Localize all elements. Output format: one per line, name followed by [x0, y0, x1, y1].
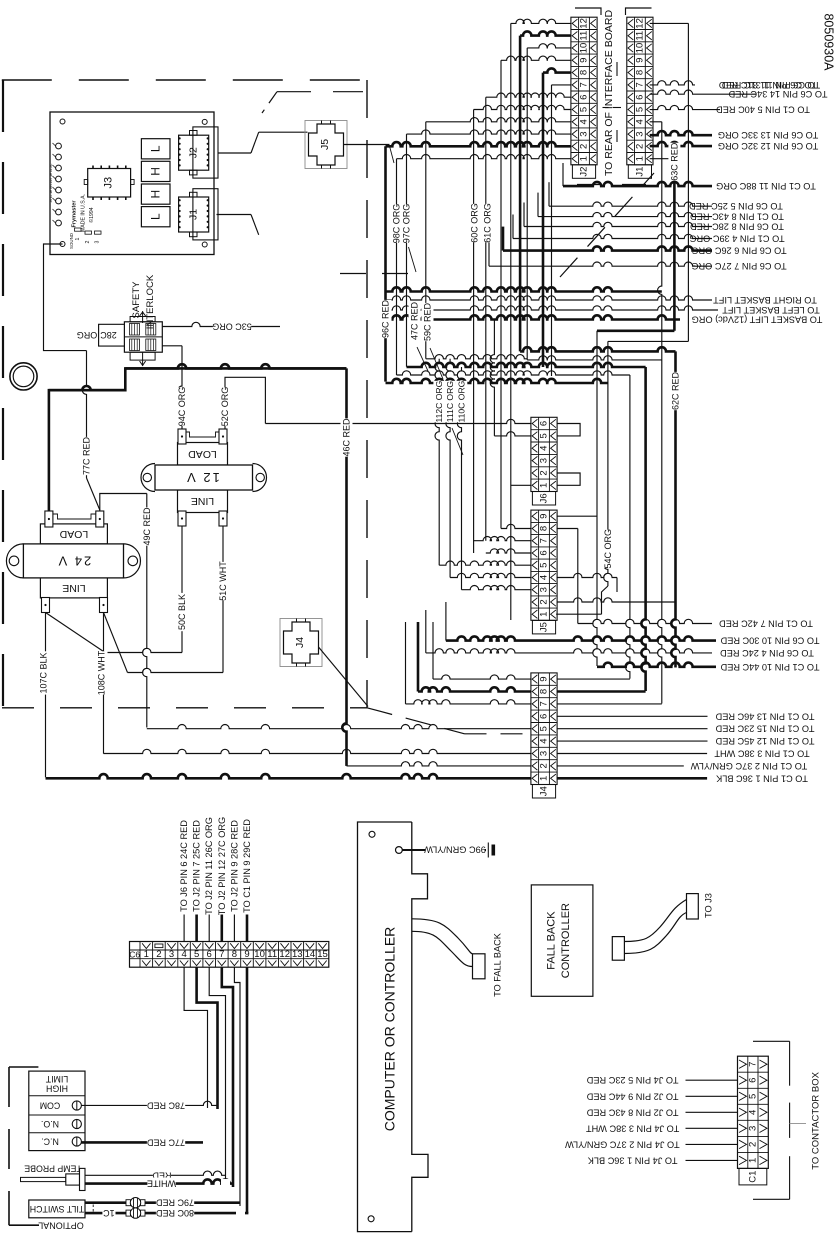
svg-text:TO C1 PIN 4 39C ORG: TO C1 PIN 4 39C ORG	[689, 234, 784, 244]
svg-text:3: 3	[539, 587, 550, 592]
svg-text:47C RED: 47C RED	[410, 301, 420, 340]
svg-text:1: 1	[634, 156, 645, 161]
svg-text:4: 4	[539, 738, 550, 743]
svg-text:5: 5	[539, 726, 550, 731]
svg-text:6: 6	[539, 714, 550, 719]
svg-text:TO C1 PIN 12 45C RED: TO C1 PIN 12 45C RED	[715, 736, 814, 746]
svg-text:7: 7	[747, 1062, 758, 1067]
svg-text:2: 2	[156, 949, 161, 960]
svg-text:1C: 1C	[103, 1208, 115, 1218]
svg-text:7: 7	[579, 82, 590, 87]
svg-text:TO BASKET LIFT (12Vdc) ORG: TO BASKET LIFT (12Vdc) ORG	[692, 315, 823, 325]
svg-text:2: 2	[634, 144, 645, 149]
svg-text:78C RED: 78C RED	[146, 1100, 185, 1110]
svg-text:J1: J1	[188, 209, 200, 220]
svg-text:5: 5	[634, 107, 645, 112]
svg-text:TO C1 PIN 11 88C ORG: TO C1 PIN 11 88C ORG	[716, 181, 816, 191]
svg-text:J1: J1	[634, 167, 645, 177]
svg-text:53C ORG: 53C ORG	[212, 322, 252, 332]
svg-text:SAFETY: SAFETY	[131, 281, 142, 319]
svg-text:110C ORG: 110C ORG	[457, 380, 467, 422]
svg-text:11: 11	[634, 31, 645, 41]
svg-text:WHITE: WHITE	[147, 1179, 176, 1189]
svg-text:4: 4	[579, 119, 590, 124]
svg-text:96C RED: 96C RED	[381, 299, 391, 338]
svg-text:5: 5	[747, 1094, 758, 1099]
svg-text:6: 6	[539, 550, 550, 555]
svg-text:TO C6 PIN 4 24C RED: TO C6 PIN 4 24C RED	[720, 648, 814, 658]
svg-text:107C BLK: 107C BLK	[39, 652, 49, 693]
svg-text:15: 15	[317, 949, 328, 960]
svg-text:7: 7	[539, 701, 550, 706]
svg-text:49C RED: 49C RED	[142, 507, 152, 546]
svg-text:TO C6 PIN 5 25C RED: TO C6 PIN 5 25C RED	[689, 201, 783, 211]
svg-text:J2: J2	[579, 167, 590, 177]
svg-text:54C ORG: 54C ORG	[603, 529, 613, 569]
svg-text:6: 6	[579, 95, 590, 100]
svg-text:H: H	[149, 167, 163, 176]
svg-text:3: 3	[169, 949, 174, 960]
svg-text:TO C1 PIN 15 23C RED: TO C1 PIN 15 23C RED	[715, 724, 814, 734]
svg-text:9: 9	[634, 58, 645, 63]
svg-text:11: 11	[267, 949, 277, 960]
svg-text:1: 1	[539, 776, 550, 781]
svg-text:TO C6 PIN 8 28C RED: TO C6 PIN 8 28C RED	[690, 222, 784, 232]
svg-text:8: 8	[539, 526, 550, 531]
svg-text:77C RED: 77C RED	[82, 436, 92, 475]
svg-text:61C ORG: 61C ORG	[482, 203, 492, 243]
svg-text:TO RIGHT BASKET LIFT: TO RIGHT BASKET LIFT	[713, 295, 817, 305]
svg-text:COMPUTER OR CONTROLLER: COMPUTER OR CONTROLLER	[382, 927, 398, 1132]
svg-text:©1994: ©1994	[88, 207, 95, 222]
svg-text:L: L	[149, 145, 163, 152]
svg-text:H: H	[149, 190, 163, 199]
svg-text:TO J2 PIN 9 44C RED: TO J2 PIN 9 44C RED	[586, 1091, 678, 1101]
svg-text:13: 13	[292, 949, 303, 960]
svg-text:LOAD: LOAD	[188, 448, 217, 460]
svg-text:5: 5	[579, 107, 590, 112]
svg-text:TO C1 PIN 5 40C RED: TO C1 PIN 5 40C RED	[716, 105, 810, 115]
svg-text:4: 4	[539, 446, 550, 451]
svg-text:SOUND: SOUND	[69, 233, 74, 249]
svg-text:TO C6 PIN 10 30C RED: TO C6 PIN 10 30C RED	[720, 636, 819, 646]
svg-text:6: 6	[634, 95, 645, 100]
svg-text:62C RED: 62C RED	[671, 371, 681, 410]
svg-text:10: 10	[579, 43, 590, 54]
svg-text:TO J4 PIN 1 36C BLK: TO J4 PIN 1 36C BLK	[587, 1155, 678, 1165]
svg-text:LIMIT: LIMIT	[45, 1074, 68, 1084]
svg-text:98C ORG: 98C ORG	[392, 204, 402, 244]
svg-text:4: 4	[539, 575, 550, 580]
svg-text:FALL BACK: FALL BACK	[546, 911, 558, 970]
svg-text:4: 4	[181, 949, 186, 960]
svg-text:TO C6 PIN 11 31C RED: TO C6 PIN 11 31C RED	[722, 80, 821, 90]
svg-text:63C RED: 63C RED	[669, 142, 679, 181]
svg-text:8: 8	[634, 70, 645, 75]
svg-text:C1: C1	[747, 1171, 758, 1183]
svg-text:TO J6 PIN 6 24C RED: TO J6 PIN 6 24C RED	[179, 820, 189, 912]
svg-text:TO J2 PIN 12 27C ORG: TO J2 PIN 12 27C ORG	[217, 817, 227, 915]
svg-text:TO C6 PIN 14 34C RED: TO C6 PIN 14 34C RED	[728, 89, 827, 99]
svg-text:TO J4 PIN 3 38C WHT: TO J4 PIN 3 38C WHT	[586, 1123, 680, 1133]
svg-text:7: 7	[219, 949, 224, 960]
svg-text:J4: J4	[539, 786, 550, 796]
svg-text:TO C1 PIN 3 38C WHT: TO C1 PIN 3 38C WHT	[714, 749, 810, 759]
svg-text:TO C1 PIN 2 37C GRN/YLW: TO C1 PIN 2 37C GRN/YLW	[690, 761, 807, 771]
svg-text:HIGH: HIGH	[46, 1084, 68, 1094]
svg-text:J5: J5	[319, 139, 331, 150]
svg-text:TO C6 PIN 13 33C ORG: TO C6 PIN 13 33C ORG	[718, 130, 818, 140]
svg-text:52C ORG: 52C ORG	[220, 387, 230, 427]
svg-text:J6 1L 1E GN 24V 1E 1L 2C: J6 1L 1E GN 24V 1E 1L 2C	[49, 163, 53, 202]
svg-text:11: 11	[579, 31, 590, 41]
svg-text:5: 5	[194, 949, 199, 960]
svg-text:TO J2 PIN 11 26C ORG: TO J2 PIN 11 26C ORG	[204, 817, 214, 915]
svg-text:2: 2	[579, 144, 590, 149]
svg-text:TO J2 PIN 9 28C RED: TO J2 PIN 9 28C RED	[229, 820, 239, 912]
svg-text:TEMP PROBE: TEMP PROBE	[24, 1163, 82, 1173]
svg-text:6: 6	[747, 1078, 758, 1083]
svg-text:1: 1	[539, 612, 550, 617]
svg-text:3: 3	[539, 751, 550, 756]
svg-text:TO J3: TO J3	[703, 893, 713, 918]
svg-text:L: L	[149, 213, 163, 220]
svg-text:2: 2	[539, 470, 550, 475]
svg-text:TO J2 PIN 8 43C RED: TO J2 PIN 8 43C RED	[586, 1107, 678, 1117]
svg-text:TO C6 PIN 7 27C ORG: TO C6 PIN 7 27C ORG	[691, 261, 786, 271]
svg-text:80C RED: 80C RED	[155, 1208, 194, 1218]
svg-text:2: 2	[747, 1142, 758, 1147]
svg-text:4: 4	[634, 119, 645, 124]
svg-text:TO J4 PIN 2 37C GRN/YLW: TO J4 PIN 2 37C GRN/YLW	[565, 1139, 680, 1149]
svg-text:J4: J4	[294, 637, 306, 648]
svg-text:3: 3	[579, 131, 590, 136]
svg-text:7: 7	[539, 538, 550, 543]
svg-text:3: 3	[539, 458, 550, 463]
svg-text:59C RED: 59C RED	[423, 302, 433, 341]
svg-text:TO FALL BACK: TO FALL BACK	[493, 932, 503, 997]
svg-text:1: 1	[144, 949, 149, 960]
svg-text:LOAD: LOAD	[59, 528, 88, 540]
svg-text:8050930A: 8050930A	[822, 13, 836, 71]
svg-text:COM: COM	[40, 1101, 61, 1111]
svg-text:TO CONTACTOR BOX: TO CONTACTOR BOX	[810, 1071, 821, 1169]
svg-text:99C GRN/YLW: 99C GRN/YLW	[424, 845, 486, 855]
svg-text:111C ORG: 111C ORG	[445, 381, 455, 423]
svg-text:2: 2	[539, 763, 550, 768]
svg-text:3: 3	[95, 240, 101, 243]
svg-text:12: 12	[634, 18, 645, 29]
svg-text:10: 10	[634, 43, 645, 54]
svg-text:9: 9	[539, 676, 550, 681]
svg-text:12 V: 12 V	[185, 470, 220, 485]
svg-text:1: 1	[539, 483, 550, 488]
svg-text:TO C1 PIN 13 46C RED: TO C1 PIN 13 46C RED	[715, 711, 814, 721]
svg-text:TO C6 PIN 6 26C ORG: TO C6 PIN 6 26C ORG	[691, 246, 786, 256]
svg-text:TO C1 PIN 9 29C RED: TO C1 PIN 9 29C RED	[242, 819, 252, 913]
svg-text:1: 1	[579, 156, 590, 161]
svg-text:TO LEFT BASKET LIFT: TO LEFT BASKET LIFT	[722, 305, 820, 315]
svg-text:51C WHT: 51C WHT	[218, 561, 228, 601]
svg-text:1: 1	[747, 1158, 758, 1163]
svg-text:8: 8	[579, 70, 590, 75]
svg-text:46C RED: 46C RED	[342, 418, 352, 457]
svg-text:TO J2 PIN 7 25C RED: TO J2 PIN 7 25C RED	[192, 820, 202, 912]
svg-text:TO C1 PIN 10 44C RED: TO C1 PIN 10 44C RED	[720, 662, 819, 672]
svg-text:1: 1	[75, 237, 81, 240]
svg-text:8: 8	[539, 689, 550, 694]
svg-text:108C WHT: 108C WHT	[97, 650, 107, 695]
svg-text:3: 3	[634, 131, 645, 136]
svg-text:9: 9	[539, 514, 550, 519]
svg-text:J2: J2	[188, 147, 200, 158]
svg-text:97C ORG: 97C ORG	[402, 204, 412, 244]
svg-text:2: 2	[539, 599, 550, 604]
svg-text:TO C1 PIN 7 42C RED: TO C1 PIN 7 42C RED	[719, 619, 813, 629]
svg-text:TO J4 PIN 5 23C RED: TO J4 PIN 5 23C RED	[586, 1075, 678, 1085]
svg-text:7: 7	[634, 82, 645, 87]
svg-text:8: 8	[232, 949, 237, 960]
svg-text:N.O.: N.O.	[41, 1119, 59, 1129]
svg-text:MADE IN U.S.A.: MADE IN U.S.A.	[81, 194, 87, 232]
svg-text:N.C.: N.C.	[41, 1137, 59, 1147]
svg-text:6: 6	[207, 949, 212, 960]
svg-text:4: 4	[747, 1110, 758, 1115]
svg-text:9: 9	[579, 58, 590, 63]
svg-text:14: 14	[305, 949, 316, 960]
svg-text:112C ORG: 112C ORG	[434, 380, 444, 422]
svg-text:TO C1 PIN 8 43C RED: TO C1 PIN 8 43C RED	[690, 212, 784, 222]
svg-text:9: 9	[244, 949, 249, 960]
svg-text:2: 2	[85, 240, 91, 243]
svg-text:INTERLOCK: INTERLOCK	[145, 274, 156, 329]
svg-text:LINE: LINE	[62, 582, 85, 594]
svg-text:ORG: ORG	[77, 330, 98, 340]
svg-text:12: 12	[279, 949, 290, 960]
svg-text:3: 3	[747, 1126, 758, 1131]
svg-text:OPTIONAL: OPTIONAL	[38, 1220, 84, 1230]
svg-text:24 V: 24 V	[57, 553, 92, 568]
svg-text:J3: J3	[103, 177, 115, 189]
svg-text:TO C1 PIN 1 36C BLK: TO C1 PIN 1 36C BLK	[715, 773, 808, 783]
svg-text:10: 10	[254, 949, 265, 960]
svg-text:CONTROLLER: CONTROLLER	[560, 903, 572, 978]
svg-text:TO C6 PIN 12 32C ORG: TO C6 PIN 12 32C ORG	[718, 141, 818, 151]
svg-text:60C ORG: 60C ORG	[469, 203, 479, 243]
svg-text:5: 5	[539, 563, 550, 568]
svg-text:Frymaster: Frymaster	[72, 200, 78, 228]
svg-text:LINE: LINE	[191, 495, 214, 507]
svg-text:J6: J6	[539, 493, 550, 503]
svg-text:77C RED: 77C RED	[146, 1137, 185, 1147]
svg-text:6: 6	[539, 421, 550, 426]
svg-text:50C BLK: 50C BLK	[177, 594, 187, 630]
svg-text:28C: 28C	[100, 330, 117, 340]
svg-text:79C RED: 79C RED	[155, 1198, 194, 1208]
svg-text:5: 5	[539, 433, 550, 438]
svg-text:J5: J5	[539, 622, 550, 632]
svg-text:12: 12	[579, 18, 590, 29]
svg-text:TILT SWITCH: TILT SWITCH	[30, 1204, 84, 1214]
svg-text:C6: C6	[129, 949, 140, 959]
svg-text:TO REAR OF INTERFACE BOARD: TO REAR OF INTERFACE BOARD	[603, 10, 615, 176]
svg-text:94C ORG: 94C ORG	[177, 387, 187, 427]
